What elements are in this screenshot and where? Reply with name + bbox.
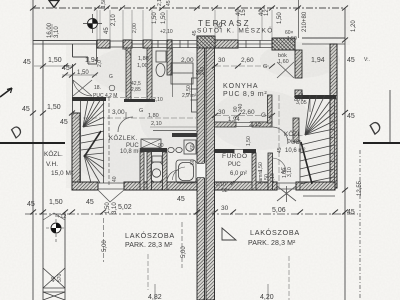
svg-text:V.H.: V.H. <box>46 161 58 168</box>
svg-text:45: 45 <box>23 59 31 66</box>
svg-text:LAKÓSZOBA: LAKÓSZOBA <box>125 231 175 240</box>
svg-text:4,20: 4,20 <box>260 294 274 300</box>
svg-text:1,50: 1,50 <box>105 202 111 214</box>
svg-text:45: 45 <box>347 113 355 120</box>
svg-text:12,55: 12,55 <box>357 180 363 196</box>
svg-text:5,06: 5,06 <box>272 207 286 214</box>
svg-text:1,50: 1,50 <box>48 57 62 64</box>
svg-text:+12: +12 <box>57 214 66 220</box>
svg-text:30: 30 <box>221 205 229 212</box>
svg-text:45: 45 <box>347 209 355 216</box>
svg-text:45: 45 <box>347 57 355 64</box>
svg-text:PARK. 28,3 M²: PARK. 28,3 M² <box>125 242 173 249</box>
svg-text:1,20: 1,20 <box>351 20 357 32</box>
svg-text:5,00: 5,00 <box>102 240 108 252</box>
svg-text:V:.: V:. <box>364 57 370 63</box>
svg-text:KÖZL.: KÖZL. <box>44 150 63 158</box>
svg-text:45: 45 <box>27 201 35 208</box>
svg-text:1,50: 1,50 <box>47 104 61 111</box>
svg-text:1,50: 1,50 <box>49 199 63 206</box>
svg-text:45: 45 <box>177 196 185 203</box>
svg-text:5,02: 5,02 <box>118 204 132 211</box>
svg-text:570: 570 <box>57 273 63 282</box>
svg-text:3,10: 3,10 <box>112 202 118 214</box>
svg-text:45: 45 <box>22 106 30 113</box>
svg-text:LAKÓSZOBA: LAKÓSZOBA <box>250 228 300 237</box>
svg-text:45: 45 <box>86 199 94 206</box>
svg-text:52: 52 <box>222 188 228 194</box>
svg-text:PARK. 28,3 M²: PARK. 28,3 M² <box>248 240 296 247</box>
